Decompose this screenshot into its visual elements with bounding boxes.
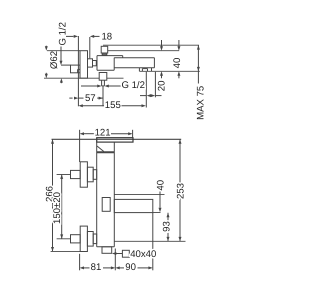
svg-text:G 1/2: G 1/2 bbox=[57, 22, 68, 45]
svg-text:150±20: 150±20 bbox=[52, 192, 63, 224]
svg-text:155: 155 bbox=[105, 100, 121, 111]
svg-text:40: 40 bbox=[155, 180, 166, 191]
svg-text:57: 57 bbox=[85, 93, 96, 104]
svg-text:18: 18 bbox=[101, 32, 112, 43]
svg-text:Ø62: Ø62 bbox=[49, 51, 60, 69]
svg-text:93: 93 bbox=[161, 221, 172, 232]
svg-text:MAX 75: MAX 75 bbox=[195, 86, 206, 120]
svg-text:253: 253 bbox=[175, 183, 186, 199]
svg-text:40: 40 bbox=[172, 58, 183, 69]
svg-text:40x40: 40x40 bbox=[130, 249, 156, 260]
svg-text:81: 81 bbox=[91, 262, 102, 273]
svg-text:121: 121 bbox=[95, 128, 111, 139]
svg-text:90: 90 bbox=[125, 262, 136, 273]
svg-text:G 1/2: G 1/2 bbox=[121, 80, 144, 91]
svg-text:20: 20 bbox=[157, 81, 168, 92]
